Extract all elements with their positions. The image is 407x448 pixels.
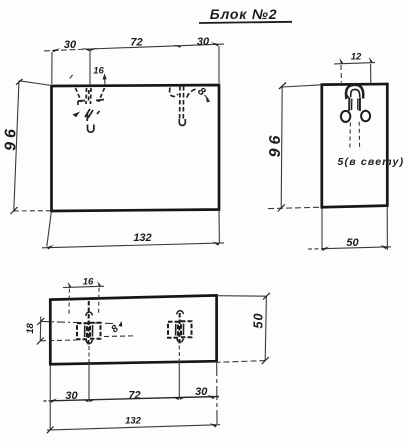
svg-text:30: 30 — [65, 390, 78, 402]
bottom extension lines (plan view) — [50, 346, 217, 430]
svg-text:50: 50 — [346, 237, 359, 249]
svg-text:50: 50 — [252, 313, 266, 329]
front view lifting loop (right, hidden lines) — [170, 86, 196, 126]
plan view loop centerline — [41, 322, 113, 324]
label 16 with leader arrow (front view) — [70, 66, 107, 86]
svg-text:30: 30 — [64, 39, 77, 51]
loop clear-gap leaders (side view) — [350, 122, 360, 151]
label 8 with leader (right loop) — [195, 85, 210, 102]
svg-text:30: 30 — [195, 386, 208, 398]
svg-text:16: 16 — [93, 66, 104, 77]
svg-text:Блок №2: Блок №2 — [210, 6, 278, 22]
bottom dimension 132 (plan view) — [47, 425, 220, 430]
svg-text:16: 16 — [83, 277, 94, 288]
top dimension line 30/72/30 — [44, 44, 224, 85]
dashes right of label 8 — [104, 335, 136, 338]
plan view hook-bottom line — [41, 339, 76, 342]
svg-text:132: 132 — [125, 416, 142, 427]
front view block outline — [52, 85, 220, 211]
plan view lifting loop (left) — [77, 301, 101, 346]
svg-text:96: 96 — [3, 125, 20, 151]
side view lifting loop — [341, 85, 370, 122]
bottom dimension 50 (side view) — [308, 206, 391, 250]
label 8 with leader (plan view) — [109, 321, 122, 335]
svg-text:5(в свету): 5(в свету) — [338, 156, 405, 168]
plan view lifting loop (right) — [168, 313, 192, 346]
svg-text:132: 132 — [133, 232, 151, 244]
top dimension 16 (plan view) — [63, 286, 104, 315]
top dimension 12 (side view) — [334, 63, 375, 84]
front view lifting loop (left, hidden lines) — [76, 88, 105, 104]
svg-text:96: 96 — [267, 132, 284, 158]
bottom dimension 30/72/30 (plan view) — [50, 397, 219, 401]
title Блок №2 — [199, 6, 292, 23]
svg-text:72: 72 — [128, 390, 140, 402]
svg-text:12: 12 — [351, 52, 362, 63]
arrows of top dimension — [52, 42, 219, 52]
svg-text:18: 18 — [25, 323, 36, 334]
right dimension 50 (plan view) — [217, 296, 267, 363]
left dimension 96 (front view) — [14, 81, 52, 211]
right dimension 96 (side view) — [268, 85, 322, 209]
bottom dimension 132 (front view) — [42, 211, 224, 248]
plan view block outline — [50, 295, 216, 364]
svg-text:30: 30 — [197, 36, 210, 48]
left dimension 18 (plan view) — [39, 317, 42, 342]
svg-text:72: 72 — [130, 37, 142, 49]
side view block outline — [322, 84, 388, 207]
